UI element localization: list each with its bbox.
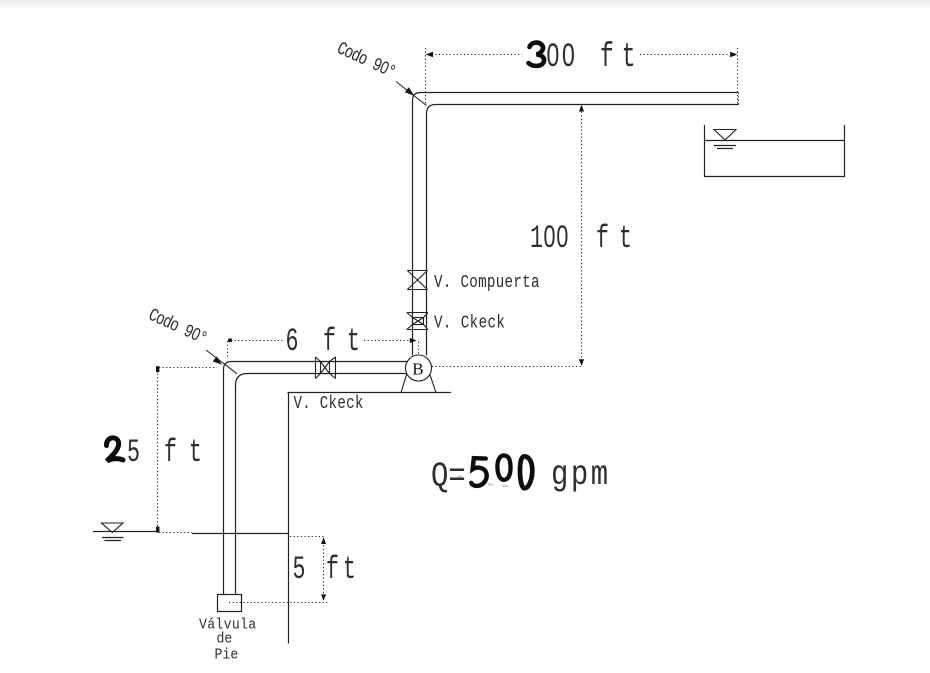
pipe: discharge riser and top horizontal run (outer line): [413, 93, 739, 356]
wall line below pump base: [288, 393, 290, 644]
tank: reservoir walls and bottom: [705, 125, 845, 177]
pipe: suction horizontal run and drop leg (outer line): [224, 362, 408, 595]
dimension 300 ft: right arrowhead: [730, 52, 737, 57]
pipe: discharge riser and top horizontal run (inner line): [427, 105, 739, 356]
text 300 ft (dimension, CAD digits): [546, 38, 577, 77]
pump base / floor line: [288, 392, 452, 394]
dimension 100 ft: top arrowhead: [579, 105, 584, 112]
leader arrow for lower Codo 90: [206, 350, 237, 374]
svg-text:6: 6: [286, 324, 299, 360]
dimension 300 ft: right extension line: [737, 48, 739, 104]
svg-text:Pie: Pie: [215, 647, 239, 664]
dimension 25 ft: top dotted connector to elbow: [159, 367, 217, 369]
handwritten bold 2: [106, 438, 123, 461]
dimension 6 ft: left extension line: [227, 341, 229, 359]
foot valve box (Valvula de Pie): [218, 595, 242, 612]
dimension 5 ft: bottom arrowhead: [321, 594, 326, 600]
svg-text:V. Ckeck: V. Ckeck: [434, 312, 505, 333]
water-surface symbol left (hatch lines): [102, 537, 124, 539]
handwritten bold 500: [471, 455, 532, 488]
water-surface symbol left (triangle): [102, 523, 124, 533]
dimension 5 ft: vertical dotted line: [323, 538, 325, 600]
dimension 6 ft: right extension line down to pump: [418, 342, 420, 355]
dimension 6 ft: right arrowhead: [410, 338, 417, 343]
svg-text:00: 00: [546, 38, 577, 77]
dotted pipe end cap at tank: [738, 93, 740, 105]
dimension 25 ft: top tick: [156, 366, 159, 372]
dimension 300 ft: left extension line: [425, 48, 427, 104]
valve V. Ckeck (check valve on riser): [407, 313, 428, 330]
svg-text:5: 5: [127, 435, 140, 471]
svg-text:ft: ft: [326, 552, 360, 588]
pipe: suction horizontal run and drop leg (inner line): [236, 374, 408, 595]
svg-text:ft: ft: [164, 435, 214, 471]
tank water line: [705, 140, 845, 142]
text Codo 90 (top elbow label, rotated): [334, 38, 399, 83]
svg-text:5: 5: [293, 552, 306, 588]
faint ghost marks under 500: [458, 477, 509, 487]
dimension 6 ft: left tick: [228, 339, 232, 343]
svg-text:ft: ft: [600, 38, 644, 77]
valve V. Compuerta (gate valve on riser): [407, 271, 427, 290]
dimension 5 ft: top dotted connector from wall: [290, 536, 325, 538]
dimension 6 ft: dotted line: [231, 340, 412, 342]
pump pedestal right leg: [430, 374, 436, 392]
dimension 25 ft: bottom tick: [156, 527, 159, 533]
tank water-surface symbol (hatch lines): [714, 145, 736, 147]
svg-text:ft: ft: [596, 221, 642, 257]
dimension 5 ft: bottom dotted connector to foot valve: [229, 602, 328, 604]
tank water-surface symbol (triangle): [714, 130, 736, 141]
svg-text:gpm: gpm: [551, 455, 611, 495]
pump pedestal left leg: [401, 374, 407, 393]
dimension 300 ft: dotted line: [428, 54, 732, 56]
pump B circle: [406, 355, 432, 381]
svg-text:ft: ft: [323, 324, 371, 360]
svg-text:V. Compuerta: V. Compuerta: [434, 271, 540, 292]
dimension 300 ft: left arrowhead: [426, 52, 433, 57]
ground/water line at left: [93, 531, 157, 533]
svg-text:B: B: [412, 359, 423, 378]
valve V. Ckeck (check valve on suction horizontal run): [316, 357, 336, 379]
text 100 ft (dimension): [530, 221, 569, 257]
dimension 25 ft: vertical dotted line: [157, 370, 159, 530]
top gradient bar: [0, 0, 930, 10]
dimension 100 ft: horizontal dotted connector to pump: [432, 366, 582, 368]
dimension 5 ft: top arrowhead: [321, 538, 326, 545]
dimension 100 ft: vertical dotted line: [581, 108, 583, 364]
dimension 100 ft: bottom arrowhead: [579, 359, 584, 366]
svg-text:V. Ckeck: V. Ckeck: [294, 392, 364, 413]
text Codo 90 (lower elbow label, rotated): [145, 304, 210, 349]
handwritten bold 3: [529, 43, 545, 66]
leader arrow for top Codo 90: [396, 82, 427, 106]
svg-text:de: de: [217, 631, 233, 648]
